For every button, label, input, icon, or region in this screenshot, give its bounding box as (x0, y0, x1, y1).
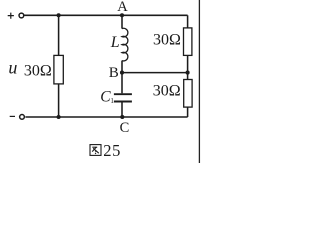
svg-text:u: u (8, 57, 17, 77)
svg-text:30Ω: 30Ω (153, 83, 181, 100)
svg-text:C: C (120, 120, 130, 136)
svg-text:A: A (117, 0, 128, 15)
svg-text:B: B (109, 65, 119, 81)
svg-text:30Ω: 30Ω (153, 32, 181, 49)
svg-text:L: L (110, 34, 120, 51)
svg-text:1: 1 (110, 97, 114, 105)
svg-text:25: 25 (103, 141, 121, 160)
svg-text:30Ω: 30Ω (24, 63, 52, 80)
